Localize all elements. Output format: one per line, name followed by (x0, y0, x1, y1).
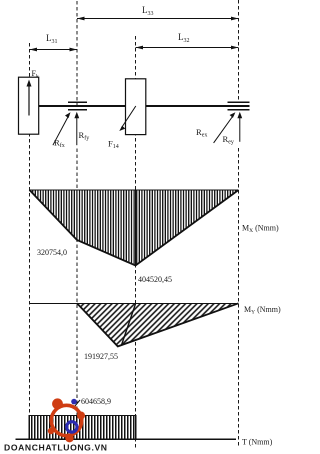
dimension L33 (77, 18, 239, 20)
gear block (126, 79, 146, 135)
Mx outline (30, 190, 239, 266)
logo blob right (77, 412, 85, 420)
My interior line (122, 303, 136, 345)
svg-text:404520,45: 404520,45 (138, 275, 172, 284)
shaft (39, 105, 250, 107)
bearing E (228, 101, 250, 103)
logo blue ring (67, 422, 77, 432)
reaction Rex arrow (214, 115, 234, 143)
dimension L32 (136, 47, 239, 49)
Mx ordinate at C (135, 190, 137, 266)
Mx ordinate at F (76, 190, 78, 240)
logo blob bottom (65, 434, 73, 442)
watermark logo orange ring (51, 405, 81, 435)
dimension L31 (30, 49, 78, 51)
svg-text:191927,55: 191927,55 (84, 352, 118, 361)
My moment diagram hatched area (77, 303, 239, 346)
T torque diagram hatched bar (29, 416, 135, 440)
reaction Rey arrow (239, 114, 241, 142)
svg-text:DOANCHATLUONG.VN: DOANCHATLUONG.VN (4, 443, 107, 453)
node E centerline (dashed) x=238.5 upper (238, 0, 240, 101)
logo blob left (48, 428, 54, 434)
Mx baseline (30, 189, 239, 191)
reaction Rfx arrow (53, 115, 69, 145)
bearing F (68, 101, 87, 103)
svg-text:T (Nmm): T (Nmm) (242, 438, 273, 447)
label 604658,9 leader (75, 400, 81, 407)
reaction Rfy arrow (76, 114, 78, 145)
My baseline (30, 303, 239, 305)
T baseline (16, 438, 237, 440)
node A centerline (dashed) x=29.5 (29, 43, 31, 415)
force F14 arrow (122, 106, 136, 128)
Mx moment diagram hatched area (30, 190, 239, 266)
force Fk arrow (28, 84, 30, 116)
coupling block (19, 77, 39, 134)
My outline (77, 303, 239, 346)
node E centerline (dashed) x=238.5 lower (238, 148, 240, 448)
node F centerline (dashed) x=77 lower (76, 149, 78, 416)
node F centerline (dashed) x=77 upper (76, 1, 78, 110)
node C centerline (dashed) x=135.5 (135, 36, 137, 448)
svg-text:MY (Nmm): MY (Nmm) (244, 305, 281, 316)
svg-text:320754,0: 320754,0 (37, 248, 67, 257)
svg-text:MX (Nmm): MX (Nmm) (242, 224, 279, 235)
svg-text:604658,9: 604658,9 (81, 397, 111, 406)
logo blob top-left (52, 398, 63, 409)
T bar outline (29, 416, 135, 440)
logo blue dot (71, 399, 77, 405)
